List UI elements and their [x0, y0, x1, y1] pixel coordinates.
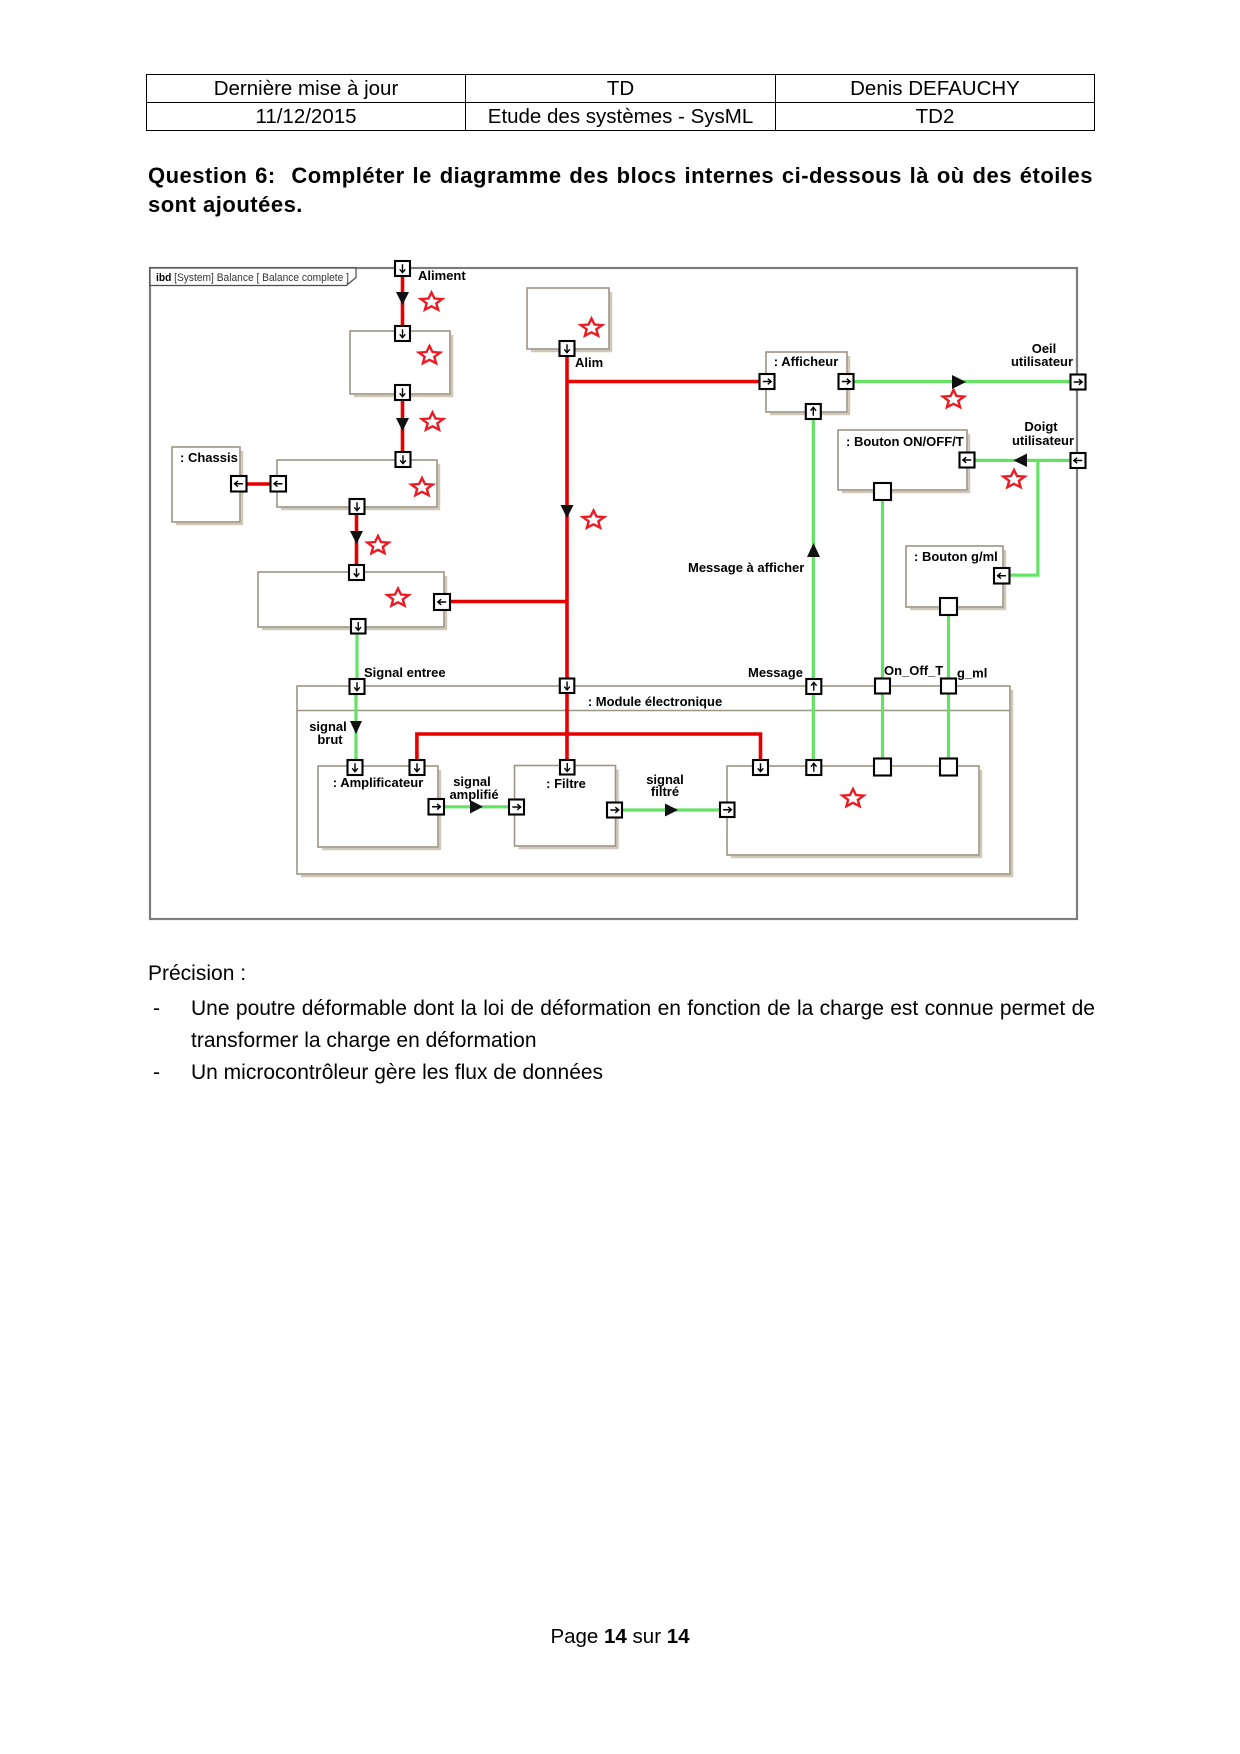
- svg-text:: Module électronique: : Module électronique: [588, 694, 722, 709]
- svg-text:ibd [System] Balance [ Balance: ibd [System] Balance [ Balance complete …: [156, 272, 349, 284]
- svg-text:Doigt: Doigt: [1024, 419, 1058, 434]
- svg-text:amplifié: amplifié: [449, 787, 498, 802]
- svg-text:: Filtre: : Filtre: [546, 776, 586, 791]
- svg-text:Signal entree: Signal entree: [364, 665, 446, 680]
- svg-text:Alim: Alim: [575, 355, 603, 370]
- svg-text:Aliment: Aliment: [418, 268, 466, 283]
- svg-text:utilisateur: utilisateur: [1012, 433, 1074, 448]
- svg-text:utilisateur: utilisateur: [1011, 354, 1073, 369]
- svg-text:: Afficheur: : Afficheur: [774, 354, 839, 369]
- svg-text:: Amplificateur: : Amplificateur: [333, 775, 424, 790]
- svg-text:: Chassis: : Chassis: [180, 450, 238, 465]
- svg-text:Message: Message: [748, 665, 803, 680]
- svg-text:: Bouton g/ml: : Bouton g/ml: [914, 549, 998, 564]
- svg-text:brut: brut: [317, 732, 343, 747]
- svg-text:g_ml: g_ml: [957, 666, 987, 681]
- svg-text:filtré: filtré: [651, 784, 679, 799]
- svg-text:Message à afficher: Message à afficher: [688, 560, 804, 575]
- svg-text:On_Off_T: On_Off_T: [884, 663, 943, 678]
- svg-text:: Bouton ON/OFF/T: : Bouton ON/OFF/T: [846, 434, 964, 449]
